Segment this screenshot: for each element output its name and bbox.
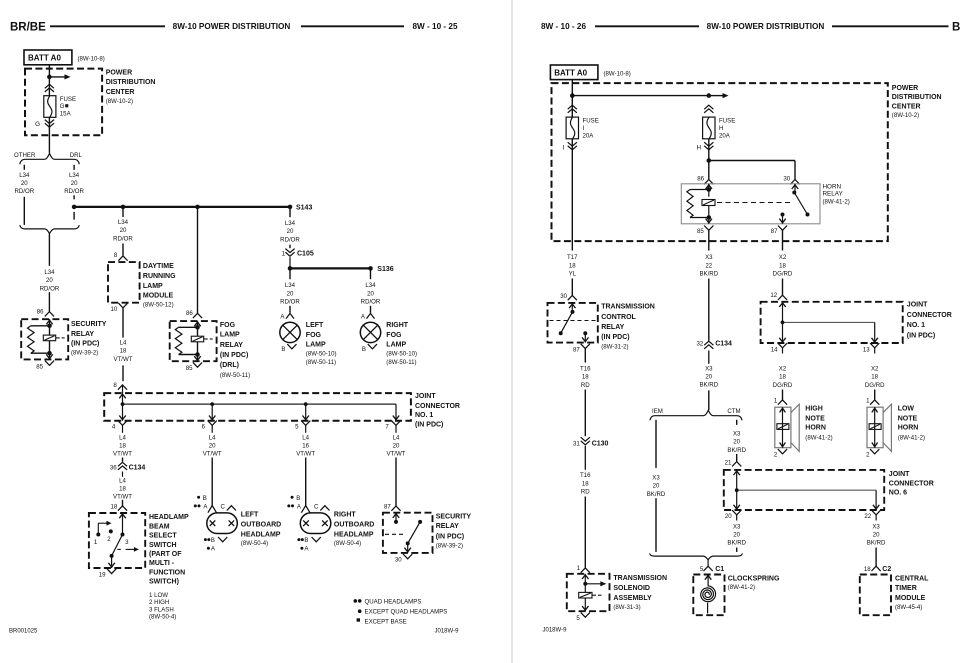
svg-text:VT/WT: VT/WT <box>387 451 406 458</box>
solenoid: TRANSMISSION SOLENOID ASSEMBLY <box>567 574 610 611</box>
horn: HIGH NOTE HORN <box>775 404 799 451</box>
svg-text:RD/OR: RD/OR <box>14 188 34 195</box>
pin 18 of headlamp beam select switch <box>111 503 128 510</box>
wire bus to S136 <box>290 267 371 269</box>
svg-text:CENTRAL: CENTRAL <box>895 575 929 582</box>
svg-text:RIGHT: RIGHT <box>334 512 357 519</box>
svg-text:30: 30 <box>783 176 790 183</box>
relay: FOG LAMP RELAY (IN PDC) coil side <box>170 321 217 361</box>
pin 5 of transmission solenoid assembly <box>576 612 589 622</box>
label: TRANSMISSION SOLENOID ASSEMBLY (8W-31-3) <box>613 575 667 611</box>
svg-text:CENTER: CENTER <box>892 104 921 111</box>
svg-text:20: 20 <box>71 180 78 187</box>
svg-text:OTHER: OTHER <box>14 152 36 159</box>
label: wire L34 20 RD/OR (security relay feed) <box>40 269 60 292</box>
svg-text:DISTRIBUTION: DISTRIBUTION <box>106 79 156 86</box>
svg-text:30: 30 <box>395 557 402 564</box>
svg-text:20: 20 <box>287 228 294 235</box>
label: wire X3 20 BK/RD (JC6 pin22) <box>867 523 886 546</box>
svg-text:C1: C1 <box>715 566 724 573</box>
svg-text:RUNNING: RUNNING <box>143 273 176 280</box>
page gutter line <box>511 0 513 663</box>
pin fork into left outboard headlamp <box>208 506 217 513</box>
pin 86 of fog lamp relay <box>186 310 202 318</box>
svg-text:RD/OR: RD/OR <box>64 188 84 195</box>
svg-text:85: 85 <box>697 228 704 235</box>
svg-text:30: 30 <box>560 293 567 300</box>
wire horn relay 87 down through PDC <box>782 230 784 250</box>
svg-text:8W-10 POWER DISTRIBUTION: 8W-10 POWER DISTRIBUTION <box>173 22 291 31</box>
wire to high note horn <box>782 390 784 400</box>
svg-text:POWER: POWER <box>106 69 132 76</box>
legend marker quad headlamps <box>354 598 422 605</box>
label: JOINT CONNECTOR NO. 6 <box>889 471 934 497</box>
pin A of right fog lamp <box>361 313 375 320</box>
svg-text:19: 19 <box>99 571 106 578</box>
svg-text:X3: X3 <box>652 475 660 482</box>
wire horn relay 85 down through PDC <box>708 230 710 250</box>
pin 1 of low note horn <box>866 398 879 405</box>
wire BATT A0 down to fuse I <box>571 80 573 118</box>
svg-text:22: 22 <box>864 513 871 520</box>
label: RIGHT FOG LAMP (8W-50-10) (8W-50-11) <box>386 322 417 366</box>
svg-text:(8W-50-10): (8W-50-10) <box>386 351 417 358</box>
svg-text:L34: L34 <box>365 282 376 289</box>
svg-text:87: 87 <box>384 503 391 510</box>
svg-text:RD: RD <box>581 489 590 496</box>
wire feed across to fuse H and arrow <box>572 93 728 98</box>
svg-text:2: 2 <box>774 451 778 458</box>
connector C134 pin 36 <box>110 458 146 477</box>
svg-text:RD/OR: RD/OR <box>361 299 381 306</box>
svg-text:RD/OR: RD/OR <box>280 236 300 243</box>
svg-text:L34: L34 <box>285 220 296 227</box>
svg-text:G: G <box>35 121 40 128</box>
label: wire X3 20 BK/RD (below C134) <box>699 365 718 388</box>
svg-text:MULTI -: MULTI - <box>149 560 175 567</box>
wire to low note horn <box>874 390 876 400</box>
svg-text:C134: C134 <box>129 464 146 471</box>
horn: LOW NOTE HORN <box>867 404 891 451</box>
svg-text:CTM: CTM <box>727 408 740 415</box>
fuse G 15A <box>44 96 56 118</box>
label: POWER DISTRIBUTION CENTER (right) <box>892 85 942 119</box>
svg-text:32: 32 <box>697 341 704 348</box>
svg-text:20: 20 <box>393 443 400 450</box>
svg-text:L34: L34 <box>69 172 80 179</box>
svg-text:(8W-50-11): (8W-50-11) <box>386 359 416 366</box>
svg-text:B: B <box>296 495 300 502</box>
label: CTM <box>727 408 740 415</box>
label: wire T16 18 RD (upper) <box>580 366 591 389</box>
label: POWER DISTRIBUTION CENTER (left) <box>106 69 156 104</box>
node: JC1 bus junction pin4 <box>121 402 125 406</box>
wire right fog lamp feed <box>370 268 372 312</box>
svg-text:T17: T17 <box>567 254 578 261</box>
svg-text:L34: L34 <box>285 282 296 289</box>
node: splice to fog lamp relay <box>195 205 200 210</box>
node: splice at DRL branch <box>72 205 77 210</box>
wire OTHER branch stub <box>23 165 25 170</box>
pin 30 of horn relay <box>783 176 799 185</box>
label: HEADLAMP BEAM SELECT SWITCH (PART OF MULTI-FUNCTION SWITCH) <box>149 514 189 621</box>
label: HORN RELAY (8W-41-2) <box>823 183 850 205</box>
svg-text:CONNECTOR: CONNECTOR <box>889 481 934 488</box>
battery feed BATT A0 (right) <box>550 65 630 80</box>
svg-text:NOTE: NOTE <box>805 416 825 423</box>
label: FOG LAMP RELAY (IN PDC) (DRL) (8W-50-11) <box>220 322 250 379</box>
svg-text:2: 2 <box>107 536 111 543</box>
pin fork into right outboard headlamp <box>301 506 310 513</box>
wire to headlamp switch <box>122 500 124 506</box>
svg-text:SWITCH): SWITCH) <box>149 579 179 586</box>
pin 87 of horn relay <box>771 226 787 236</box>
svg-text:X3: X3 <box>733 431 741 438</box>
pin 86 of horn relay <box>697 176 713 185</box>
svg-text:20: 20 <box>120 227 127 234</box>
svg-text:YL: YL <box>569 270 577 277</box>
joint connector no.6 box <box>724 470 884 510</box>
wire X3 to C134 <box>708 279 710 341</box>
wire branch to horn relay pin 30 <box>709 161 795 180</box>
svg-text:CONNECTOR: CONNECTOR <box>907 312 952 319</box>
label: JOINT CONNECTOR NO. 1 (IN PDC) (left) <box>415 393 460 428</box>
pin B of left fog lamp <box>281 344 296 353</box>
wire splice to DRL module <box>122 207 124 256</box>
svg-text:8: 8 <box>114 252 118 259</box>
svg-text:20: 20 <box>21 180 28 187</box>
node: junction at PDC feed (left) <box>47 75 52 80</box>
svg-text:20: 20 <box>733 439 740 446</box>
svg-text:POWER: POWER <box>892 85 918 92</box>
svg-text:(8W-50-12): (8W-50-12) <box>143 302 174 309</box>
svg-text:85: 85 <box>186 365 193 372</box>
svg-text:12: 12 <box>770 292 777 299</box>
wire S143 to C105 <box>289 207 291 248</box>
svg-text:(8W-41-2): (8W-41-2) <box>898 434 925 441</box>
pin 5 of joint connector no.1 <box>295 421 310 433</box>
label: J018W-9 (left page) <box>435 628 460 634</box>
pin 12 of joint connector no.1 (right) <box>770 292 787 300</box>
svg-text:(8W-50-4): (8W-50-4) <box>241 540 268 547</box>
svg-text:TIMER: TIMER <box>895 585 917 592</box>
svg-text:HEADLAMP: HEADLAMP <box>149 514 189 521</box>
svg-text:(IN PDC): (IN PDC) <box>907 333 935 340</box>
label: DRL <box>70 152 83 159</box>
relay: HORN RELAY box <box>681 184 820 224</box>
svg-text:(IN PDC): (IN PDC) <box>436 533 464 540</box>
svg-text:13: 13 <box>863 346 870 353</box>
relay: SECURITY RELAY (IN PDC) switch side <box>383 513 433 553</box>
svg-text:DAYTIME: DAYTIME <box>143 263 174 270</box>
label: FUSE I 20A <box>583 118 599 140</box>
svg-text:RD/OR: RD/OR <box>40 285 60 292</box>
wire bus to S143 <box>74 206 290 208</box>
svg-text:86: 86 <box>37 308 44 315</box>
svg-text:BEAM: BEAM <box>149 523 170 530</box>
svg-text:BK/RD: BK/RD <box>727 540 746 547</box>
svg-text:(8W-50-10): (8W-50-10) <box>306 351 337 358</box>
node: S136 splice <box>368 266 394 273</box>
svg-text:CLOCKSPRING: CLOCKSPRING <box>728 575 780 582</box>
svg-text:DG/RD: DG/RD <box>773 382 793 389</box>
svg-text:MODULE: MODULE <box>143 293 174 300</box>
svg-text:VT/WT: VT/WT <box>113 451 132 458</box>
svg-text:FOG: FOG <box>220 322 236 329</box>
connector C130 pin 31 <box>573 437 609 470</box>
svg-text:3 FLASH: 3 FLASH <box>149 606 174 613</box>
label: JOINT CONNECTOR NO. 1 (IN PDC) (right) <box>907 302 952 340</box>
label: HIGH NOTE HORN (8W-41-2) <box>805 405 832 441</box>
fuse I 20A <box>566 117 578 139</box>
label: IEM <box>652 408 663 415</box>
wire IEM branch to merge <box>655 498 657 552</box>
svg-text:86: 86 <box>697 176 704 183</box>
svg-text:(8W-41-2): (8W-41-2) <box>728 584 755 591</box>
svg-text:RELAY: RELAY <box>823 191 844 198</box>
pin 10 of daytime running lamp module <box>111 303 128 313</box>
svg-text:8W - 10 - 25: 8W - 10 - 25 <box>412 22 457 31</box>
svg-text:B: B <box>952 22 960 34</box>
svg-text:H: H <box>719 125 723 132</box>
svg-text:NO. 1: NO. 1 <box>907 322 925 329</box>
svg-text:18: 18 <box>119 486 126 493</box>
node: JC1 bus junction pin6 <box>210 402 214 406</box>
wire merged down to security relay <box>48 234 50 312</box>
svg-text:NO. 6: NO. 6 <box>889 490 907 497</box>
connector chevrons above fuse I <box>568 105 577 113</box>
connector chevrons above fuse H <box>704 105 713 113</box>
svg-text:LAMP: LAMP <box>306 342 326 349</box>
switch: HEADLAMP BEAM SELECT SWITCH box <box>89 513 145 568</box>
label: RIGHT OUTBOARD HEADLAMP (8W-50-4) <box>334 512 374 547</box>
pin A below right headlamp <box>300 546 309 553</box>
wire DRL module to joint connector no.1 <box>122 308 124 381</box>
svg-text:JOINT: JOINT <box>907 302 928 309</box>
label: OTHER <box>14 152 36 159</box>
wire TCR 87 down <box>584 349 586 437</box>
svg-text:8W-10 POWER DISTRIBUTION: 8W-10 POWER DISTRIBUTION <box>707 22 825 31</box>
svg-text:DG/RD: DG/RD <box>865 382 885 389</box>
wire fuse H down to horn relay branch <box>708 139 710 180</box>
svg-text:1 LOW: 1 LOW <box>149 592 168 599</box>
svg-text:I: I <box>583 125 585 132</box>
node: junction PDC feed (right) <box>570 93 575 98</box>
svg-text:(8W-50-11): (8W-50-11) <box>306 359 336 366</box>
pin 1 of transmission solenoid assembly <box>577 565 590 573</box>
svg-text:31: 31 <box>573 440 580 447</box>
wire OTHER branch down <box>23 197 25 225</box>
relay: SECURITY RELAY (IN PDC) coil side <box>21 319 68 359</box>
power distribution center box (left) <box>25 69 102 136</box>
svg-text:7: 7 <box>385 424 389 431</box>
svg-text:20A: 20A <box>583 133 595 140</box>
svg-text:18: 18 <box>779 262 786 269</box>
wire JC1 to left outboard headlamp <box>211 458 213 506</box>
pin 30 of security relay switch <box>395 554 412 564</box>
wire below fuse I with pin I <box>563 142 577 151</box>
svg-text:C: C <box>314 503 319 510</box>
svg-text:20: 20 <box>705 374 712 381</box>
lamp: RIGHT FOG LAMP <box>360 322 380 342</box>
svg-text:X3: X3 <box>705 365 713 372</box>
svg-text:HIGH: HIGH <box>805 405 823 412</box>
svg-text:RELAY: RELAY <box>601 324 624 331</box>
svg-text:BK/RD: BK/RD <box>699 270 718 277</box>
wire DRL branch down to bus <box>73 195 75 219</box>
joint connector no.1 box (right) <box>761 302 903 343</box>
svg-text:LEFT: LEFT <box>306 322 324 329</box>
svg-text:20: 20 <box>209 443 216 450</box>
svg-text:DRL: DRL <box>70 152 83 159</box>
svg-text:(8W-31-3): (8W-31-3) <box>613 604 640 611</box>
pin 3 of headlamp switch <box>125 539 129 546</box>
svg-text:5: 5 <box>576 615 580 622</box>
pin B below right headlamp <box>297 537 320 544</box>
label: wire L34 20 RD/OR (DRL module feed) <box>113 219 133 242</box>
relay: TRANSMISSION CONTROL RELAY switch side <box>548 303 598 343</box>
node: S143 splice <box>288 205 313 212</box>
pin 87 of transmission control relay <box>573 344 590 354</box>
svg-text:21: 21 <box>725 460 732 467</box>
svg-text:RIGHT: RIGHT <box>386 322 409 329</box>
svg-text:T16: T16 <box>580 366 591 373</box>
pin 14 of joint connector no.1 (right) <box>771 343 787 353</box>
svg-text:C105: C105 <box>297 251 314 258</box>
svg-text:85: 85 <box>36 363 43 370</box>
label: J018W-9 (right page) <box>543 628 568 634</box>
svg-text:B: B <box>203 495 207 502</box>
svg-text:14: 14 <box>771 346 778 353</box>
svg-text:OUTBOARD: OUTBOARD <box>334 522 374 529</box>
wire bus inside joint connector no.1 (right) <box>779 302 878 343</box>
svg-text:X3: X3 <box>872 523 880 530</box>
svg-text:L4: L4 <box>120 340 127 347</box>
option marker B above right headlamp <box>291 495 301 502</box>
svg-text:HORN: HORN <box>805 425 826 432</box>
split brace OTHER/DRL <box>20 153 80 164</box>
svg-text:SELECT: SELECT <box>149 533 177 540</box>
label: LOW NOTE HORN (8W-41-2) <box>898 405 925 441</box>
label: DAYTIME RUNNING LAMP MODULE (8W-50-12) <box>143 263 176 308</box>
svg-text:(8W-10-2): (8W-10-2) <box>106 98 133 105</box>
svg-text:TRANSMISSION: TRANSMISSION <box>613 575 667 582</box>
svg-text:20: 20 <box>287 290 294 297</box>
svg-text:22: 22 <box>705 262 712 269</box>
pin 85 of security relay (in PDC) <box>36 361 54 371</box>
wire T17 to transmission control relay <box>571 279 573 296</box>
svg-text:HORN: HORN <box>823 183 842 190</box>
pin 1 of headlamp switch <box>94 539 98 546</box>
svg-text:X2: X2 <box>779 366 787 373</box>
pin C of right outboard headlamp <box>314 503 330 510</box>
svg-text:10: 10 <box>111 306 118 313</box>
node: JC6 bus junction <box>735 488 739 492</box>
label: wire L4 20 VT/WT (JC1 out) <box>203 434 222 457</box>
svg-text:X2: X2 <box>779 254 787 261</box>
svg-text:(8W-31-2): (8W-31-2) <box>601 343 628 350</box>
svg-text:18: 18 <box>120 348 127 355</box>
node: JC1 right bus junction <box>781 321 785 325</box>
node: splice to DRL module <box>121 205 126 210</box>
svg-text:L4: L4 <box>119 434 126 441</box>
svg-text:DISTRIBUTION: DISTRIBUTION <box>892 94 942 101</box>
wire JC1 drop pin 4 <box>119 404 125 421</box>
svg-text:20A: 20A <box>719 133 731 140</box>
svg-text:IEM: IEM <box>652 408 663 415</box>
svg-text:5: 5 <box>700 566 704 573</box>
merge brace to clockspring <box>650 553 743 566</box>
label: wire L34 20 RD/OR (left fog lamp) <box>280 282 300 305</box>
label: BR001025 <box>9 628 38 634</box>
label: wire L34 20 RD/OR (right fog lamp) <box>361 282 381 305</box>
svg-text:86: 86 <box>186 310 193 317</box>
svg-text:18: 18 <box>119 443 126 450</box>
svg-text:20: 20 <box>653 483 660 490</box>
svg-text:18: 18 <box>111 503 118 510</box>
label: wire X3 20 BK/RD (IEM branch) <box>647 475 666 498</box>
wire bus inside joint connector no.1 (left) <box>119 393 396 404</box>
svg-text:FUSE: FUSE <box>583 118 599 125</box>
pin 4 of joint connector no.1 <box>112 421 127 433</box>
svg-text:BK/RD: BK/RD <box>867 540 886 547</box>
svg-text:(8W-41-2): (8W-41-2) <box>823 198 850 205</box>
svg-text:(PART OF: (PART OF <box>149 551 182 558</box>
svg-text:TRANSMISSION: TRANSMISSION <box>601 303 655 310</box>
wire bus inside joint connector no.6 <box>734 470 880 510</box>
wire DRL branch stub <box>73 165 75 170</box>
pin 30 of transmission control relay <box>560 293 577 300</box>
pin B of right fog lamp <box>362 344 377 353</box>
svg-text:(8W-10-8): (8W-10-8) <box>604 70 631 77</box>
svg-text:LAMP: LAMP <box>386 342 406 349</box>
pin 86 of security relay (in PDC) <box>37 308 54 316</box>
split brace IEM/CTM <box>650 410 742 420</box>
svg-text:B: B <box>304 537 308 544</box>
label: wire X3 22 BK/RD <box>699 254 718 277</box>
pin 21 of joint connector no.6 <box>725 460 742 467</box>
svg-text:8: 8 <box>113 382 117 389</box>
pin 85 of fog lamp relay <box>186 362 202 372</box>
svg-text:(IN PDC): (IN PDC) <box>220 352 248 359</box>
lamp: LEFT FOG LAMP <box>280 322 300 342</box>
svg-text:(IN PDC): (IN PDC) <box>601 334 629 341</box>
wire JC1 drop pin 7 <box>393 404 399 421</box>
option marker B above left headlamp <box>197 495 207 502</box>
lamp: RIGHT OUTBOARD HEADLAMP <box>300 513 331 534</box>
label: CENTRAL TIMER MODULE (8W-45-4) <box>895 575 929 611</box>
legend marker except base <box>357 618 407 625</box>
wire JC1 drop pin 6 <box>209 404 215 421</box>
pin 19 of headlamp switch <box>99 569 116 579</box>
svg-text:18: 18 <box>569 262 576 269</box>
svg-text:SWITCH: SWITCH <box>149 542 177 549</box>
wire below fuse H with pin H <box>696 142 713 151</box>
pin 7 of joint connector no.1 <box>385 421 400 433</box>
label: wire T17 18 YL <box>567 254 578 277</box>
label: wire X2 18 DG/RD (high note horn) <box>773 366 793 389</box>
svg-text:NOTE: NOTE <box>898 416 918 423</box>
node: JC1 bus junction pin5 <box>304 402 308 406</box>
svg-text:(8W-10-8): (8W-10-8) <box>78 55 105 62</box>
pin 87 of security relay switch <box>384 503 401 510</box>
pin A below left headlamp <box>207 546 216 553</box>
wire CTM branch stub <box>736 420 738 425</box>
option marker A above left headlamp <box>194 503 209 510</box>
svg-text:HEADLAMP: HEADLAMP <box>241 531 281 538</box>
svg-text:RELAY: RELAY <box>71 331 94 338</box>
svg-text:(8W-50-11): (8W-50-11) <box>220 372 250 379</box>
